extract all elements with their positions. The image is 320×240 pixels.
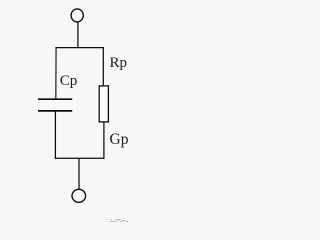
wire top horizontal — [55, 47, 104, 49]
svg-text:.:..:~:.-..: .:..:~:.-.. — [109, 218, 129, 224]
wire right branch lower — [103, 122, 105, 159]
wire node to bottom terminal — [78, 158, 80, 189]
capacitor Cp bottom plate — [38, 110, 72, 112]
wire right branch upper — [102, 48, 104, 87]
wire top terminal to node — [77, 22, 79, 48]
wire left branch lower — [54, 111, 56, 159]
svg-text:Cp: Cp — [60, 73, 78, 89]
capacitor Cp top plate — [38, 98, 72, 100]
svg-text:Rp: Rp — [110, 55, 128, 71]
wire bottom horizontal — [55, 157, 105, 159]
resistor Rp body — [99, 86, 108, 122]
wire left branch upper — [55, 48, 57, 99]
terminal (bottom) — [72, 189, 86, 202]
svg-text:Gp: Gp — [110, 131, 129, 148]
terminal (top) — [71, 9, 83, 22]
circuit schematic: parallel RC network between two terminals — [0, 0, 147, 224]
